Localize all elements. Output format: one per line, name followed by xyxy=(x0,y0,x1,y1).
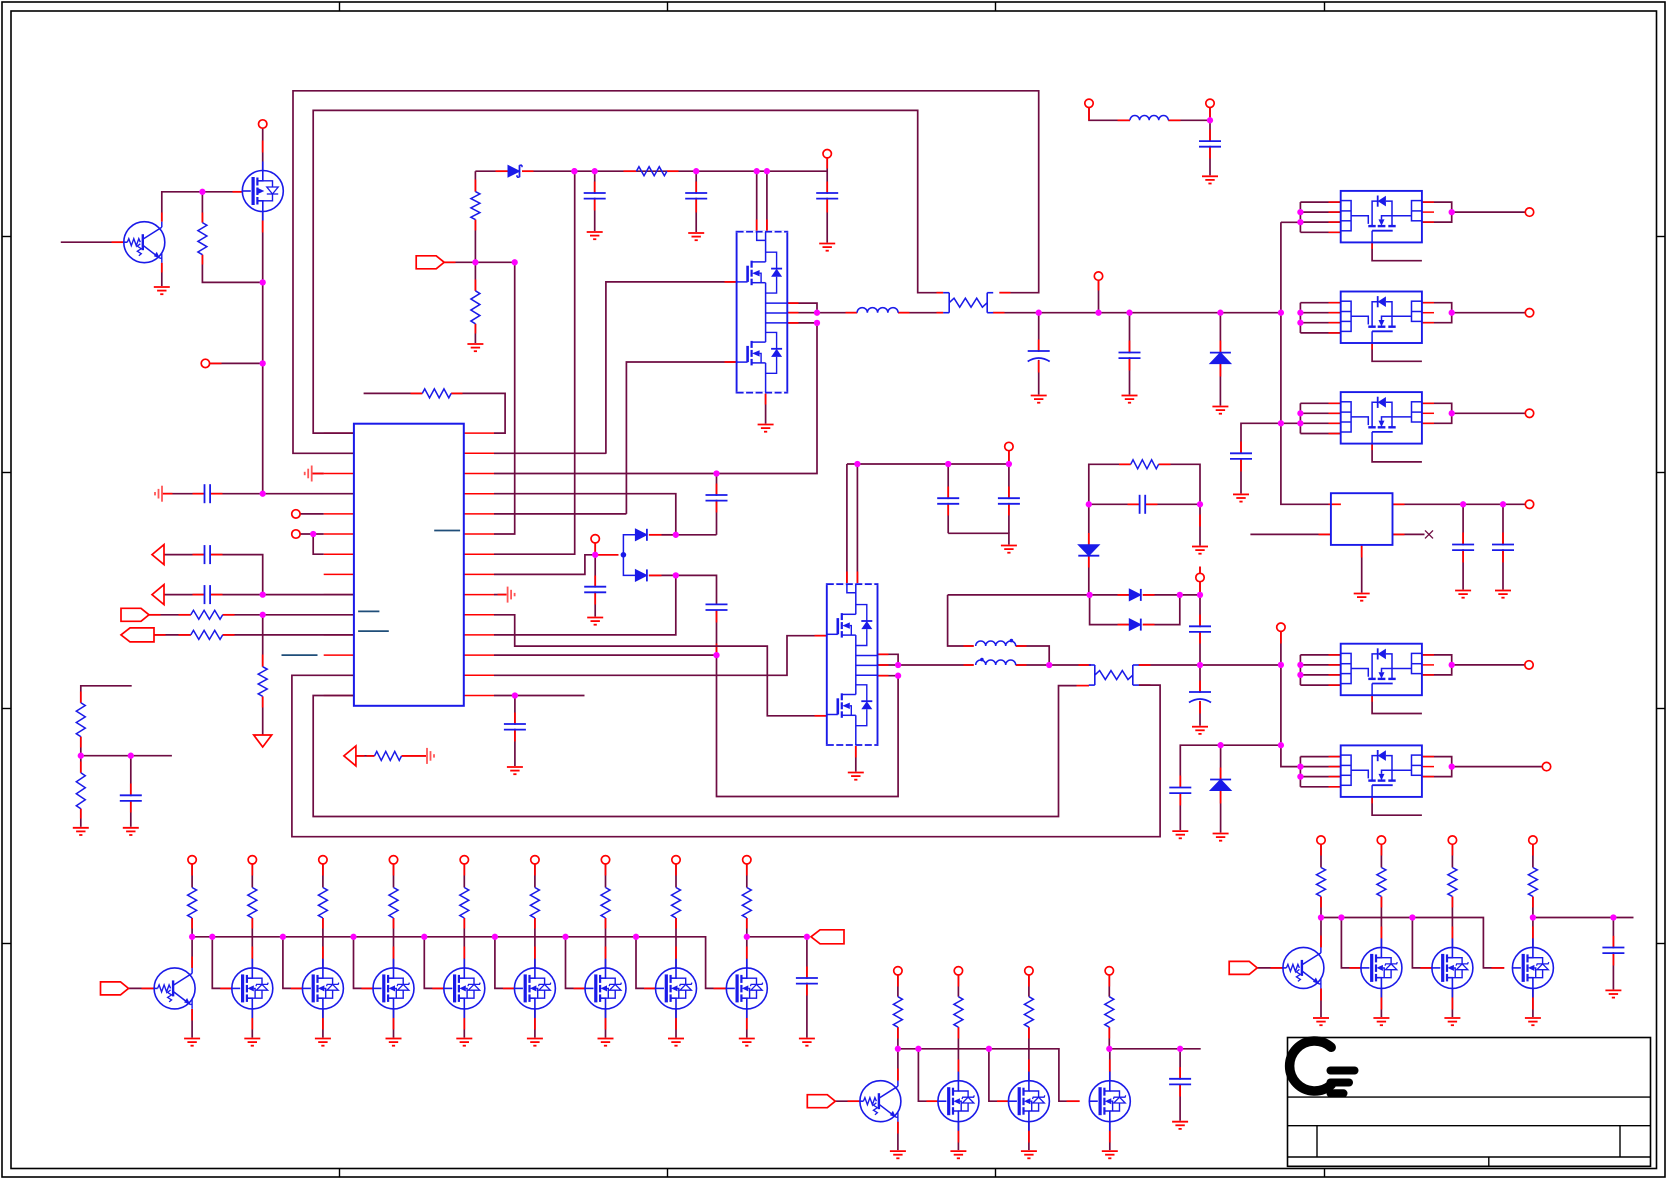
mosfet M6 row1 xyxy=(585,959,626,1018)
ground C26 xyxy=(1605,990,1621,997)
pin terminal grp2 2 xyxy=(954,967,962,975)
junction D6 out b xyxy=(1197,592,1203,598)
resistor R11 top xyxy=(422,389,451,398)
wire switch node to L1 xyxy=(817,312,857,314)
wire row1 drain resistor 4 leads xyxy=(463,864,465,888)
border bottom tick 4 xyxy=(1324,1169,1326,1178)
resistor R43 xyxy=(1448,868,1457,897)
sense resistor RS1 xyxy=(943,293,993,313)
capacitor C25 xyxy=(1169,1079,1192,1085)
wire grp2 drain 2 xyxy=(1028,1049,1030,1081)
wire U9 gnd xyxy=(1361,545,1363,593)
transistor Q2 xyxy=(154,968,195,1009)
pin terminal grp2 1 xyxy=(894,967,902,975)
border right tick 1 xyxy=(1657,236,1666,238)
junction U6 out xyxy=(1449,410,1455,416)
junction row1 gate tap 7 xyxy=(633,934,639,940)
resistor R6h xyxy=(191,630,223,639)
capacitor C22 xyxy=(1492,545,1515,551)
resistor R10 xyxy=(375,751,402,760)
pin terminal grp2 3 xyxy=(1025,967,1033,975)
ic U1 left dash xyxy=(282,654,318,656)
mosfet M11 grp2 xyxy=(1008,1072,1049,1131)
wire row1 gate 7 xyxy=(636,937,656,989)
junction row1 collector node xyxy=(189,934,195,940)
mosfet M7 row1 xyxy=(656,959,697,1018)
wire L13 to bus2 xyxy=(292,675,1160,836)
chassis ground IC L3 xyxy=(305,466,312,482)
capacitor C5 xyxy=(1118,353,1141,359)
transistor Q4 xyxy=(1283,947,1324,988)
wire R14row stub xyxy=(494,695,585,697)
junction switch node a xyxy=(814,310,820,316)
wire U2 right pin2 to bus xyxy=(787,312,817,314)
junction D5 anode node xyxy=(1086,592,1092,598)
junction Q1 gate node xyxy=(199,189,205,195)
wire Q3 emitter xyxy=(897,1122,899,1150)
wire row1 drain 1 xyxy=(251,918,253,968)
power mosfet module U5 xyxy=(1341,292,1422,344)
wire D2 leads xyxy=(1219,313,1221,406)
wire grp2 source 2 xyxy=(1028,1122,1030,1150)
junction U9 out C21 xyxy=(1460,501,1466,507)
resistor R31 xyxy=(893,997,902,1027)
ground C1 xyxy=(587,232,603,239)
border bottom tick 1 xyxy=(339,1169,341,1178)
polarity dot T1 secondary xyxy=(980,658,984,662)
wire grp3 resistor 1 bottom xyxy=(1320,897,1322,918)
diode D1 schottky xyxy=(508,165,522,177)
wire RC right to ground xyxy=(1199,504,1201,545)
pin terminal P4 bus xyxy=(1094,272,1102,280)
pin terminal grp3 1 xyxy=(1317,836,1325,844)
wire U6 right pins xyxy=(1422,403,1525,423)
wire module1 feed a down xyxy=(756,171,758,232)
junction C13 tap xyxy=(512,692,518,698)
junction grp2 collector node xyxy=(895,1046,901,1052)
wire grp2 source 3 xyxy=(1109,1122,1111,1150)
ground C23 xyxy=(1202,176,1218,183)
wire T1 secondary east xyxy=(1016,664,1091,666)
wire C1 leads xyxy=(594,171,596,231)
wire D6 anode stub xyxy=(1090,594,1130,596)
wire U6 left pins xyxy=(1300,403,1340,433)
pin terminal row1 8 xyxy=(743,856,751,864)
wire R20 to bus xyxy=(191,918,193,937)
capacitor C26 xyxy=(1602,948,1625,954)
wire C7 to corner xyxy=(210,555,263,595)
port P6 xyxy=(121,628,154,642)
dual mosfet module U2 xyxy=(737,232,788,393)
junction bus C4 tap xyxy=(1036,310,1042,316)
junction grp2 gate tap 2 xyxy=(986,1046,992,1052)
wire grp3 drain4 node xyxy=(1533,917,1634,919)
junction top chain node A xyxy=(571,168,577,174)
resistor R20 xyxy=(188,888,197,919)
junction M0 drain node xyxy=(260,279,266,285)
wire C17 leads xyxy=(1199,595,1201,665)
pin terminal row1 4 xyxy=(460,856,468,864)
wire P15 to Q3 xyxy=(835,1100,860,1102)
diode D6 xyxy=(1129,589,1141,601)
wire U5 left pins xyxy=(1300,303,1340,333)
wire M0 drain down xyxy=(262,212,264,494)
inductor T1 secondary xyxy=(976,660,1016,665)
wire U4 right pins xyxy=(1422,202,1525,222)
capacitor C21 xyxy=(1452,545,1475,551)
port P16 xyxy=(1229,961,1257,974)
border right tick 2 xyxy=(1657,472,1666,474)
junction L9 node xyxy=(260,591,266,597)
pin terminal P10 xyxy=(1277,623,1285,631)
wire P3 down / C3 leads xyxy=(826,158,828,243)
wire R9row stub xyxy=(494,594,507,596)
wire C5 leads xyxy=(1129,313,1131,395)
wire grp3 drain 2 xyxy=(1451,918,1453,948)
resistor R24 xyxy=(460,888,469,919)
wire R1 top xyxy=(201,192,203,223)
wire R2row to U2 gate1 column xyxy=(494,452,606,454)
wire grp3 resistor 4 leads xyxy=(1532,844,1534,867)
wire D7 branch xyxy=(1090,595,1130,625)
resistor R8 xyxy=(76,703,85,737)
mosfet M10 grp2 xyxy=(938,1072,979,1131)
wire row1 drain resistor 7 leads xyxy=(675,864,677,888)
wire grp3 drain 1 xyxy=(1380,918,1382,948)
junction U4 left r3 xyxy=(1297,219,1303,225)
wire M0 source to pin xyxy=(262,128,264,170)
ground M4 row1 xyxy=(456,1039,472,1046)
capacitor C11 xyxy=(584,587,607,593)
capacitor C2 xyxy=(685,193,708,199)
wire grp2 resistor 2 leads xyxy=(957,975,959,997)
wire L4 row xyxy=(263,493,354,495)
wire grp3 gate 2 xyxy=(1412,918,1432,968)
wire U3 feed a down xyxy=(846,464,848,584)
pin terminal grp3 4 xyxy=(1529,836,1537,844)
wire grp3 resistor 1 leads xyxy=(1320,844,1322,867)
ground M5 row1 xyxy=(527,1039,543,1046)
wire row1 drain 2 xyxy=(322,918,324,968)
wire P9 to D6 node xyxy=(1199,582,1201,595)
wire module5 feed line xyxy=(1180,745,1281,787)
ground C11 xyxy=(587,618,603,625)
wire R6 to IC L11 xyxy=(223,634,354,636)
ground R4 xyxy=(467,344,483,351)
pin terminal U9 out xyxy=(1525,500,1533,508)
wire row1 drain resistor 6 leads xyxy=(605,864,607,888)
capacitor C12 xyxy=(705,604,728,610)
junction U4 out xyxy=(1449,209,1455,215)
ground R9 xyxy=(73,828,89,835)
wire grp2 resistor 4 leads xyxy=(1108,975,1110,997)
power mosfet module U6 xyxy=(1341,392,1422,444)
wire sense1 BR east xyxy=(993,312,1281,314)
mosfet M22 grp3 xyxy=(1512,938,1553,997)
wire P4 to bus xyxy=(1098,280,1100,312)
wire row1 bias pin xyxy=(191,864,193,888)
capacitor C14 xyxy=(937,498,960,504)
pin terminal U7 out xyxy=(1525,661,1533,669)
voltage regulator U9 xyxy=(1331,493,1393,545)
border left tick 4 xyxy=(2,943,11,945)
pin terminal IC L6 xyxy=(292,530,300,538)
resistor R26 xyxy=(601,888,610,919)
wire D3 cathode stub xyxy=(649,534,676,536)
wire T1 to C7 xyxy=(164,554,205,556)
ground M8 row1 xyxy=(739,1039,755,1046)
resistor R27 xyxy=(672,888,681,919)
inductor L2 xyxy=(1130,116,1168,121)
diode D3 xyxy=(635,529,647,541)
resistor R2 top chain xyxy=(636,167,667,176)
junction boot node a xyxy=(814,320,820,326)
junction row1 gate tap 5 xyxy=(492,934,498,940)
wire C8 to IC L9 xyxy=(210,594,354,596)
capacitor C3 xyxy=(816,193,839,199)
wire T1 primary to node xyxy=(1016,646,1049,665)
wire R8row to diode node xyxy=(494,555,595,575)
wire Q3 collector xyxy=(897,1049,899,1081)
pin terminal P2 xyxy=(201,359,209,367)
wire U2 right pin1 xyxy=(787,303,817,313)
wire U3 right pin1 xyxy=(878,654,899,665)
wire U4 left pins xyxy=(1300,202,1340,232)
border top tick 4 xyxy=(1324,2,1326,11)
junction row1 gate tap 6 xyxy=(562,934,568,940)
port P14 xyxy=(811,930,844,944)
wire grp2 gate 1 xyxy=(918,1049,938,1101)
wire L6-L7 link xyxy=(313,534,324,554)
port P15 xyxy=(807,1095,835,1108)
junction U5 left r2 xyxy=(1297,310,1303,316)
wire C10 bottom to D3 xyxy=(662,534,717,536)
junction U8 left r2 xyxy=(1297,763,1303,769)
wire C11 leads xyxy=(594,555,596,617)
mosfet M21 grp3 xyxy=(1432,938,1473,997)
junction grp2 drain4 xyxy=(1106,1046,1112,1052)
pin terminal row1 2 xyxy=(319,856,327,864)
pin terminal P12 xyxy=(1206,99,1214,107)
inductor L1 xyxy=(857,308,898,313)
mosfet M1 row1 xyxy=(232,959,273,1018)
capacitor C18 polarized xyxy=(1189,692,1212,703)
resistor R44 xyxy=(1528,868,1537,897)
wire P6 to R6 xyxy=(154,634,191,636)
pin terminal grp3 2 xyxy=(1377,836,1385,844)
resistor R34 xyxy=(1105,997,1114,1027)
ground C21 xyxy=(1455,591,1471,598)
junction divider mid xyxy=(78,753,84,759)
junction grp3 collector node xyxy=(1318,914,1324,920)
junction grp2 gate tap 1 xyxy=(915,1046,921,1052)
capacitor C19 xyxy=(1169,788,1192,794)
wire D4 node east xyxy=(676,575,717,604)
mosfet M8 row1 xyxy=(726,959,767,1018)
wire C23 leads xyxy=(1209,120,1211,175)
border bottom tick 3 xyxy=(995,1169,997,1178)
ground M10 grp2 xyxy=(950,1151,966,1158)
wire D5 leads xyxy=(1088,504,1090,595)
junction row1 gate tap 4 xyxy=(421,934,427,940)
ic U1 internal label dash 2 xyxy=(358,610,379,612)
wire P11 to L2 xyxy=(1089,108,1130,121)
ground C5 xyxy=(1122,396,1138,403)
border right tick 4 xyxy=(1657,943,1666,945)
wire grp2 resistor 2 bottom xyxy=(957,1027,959,1049)
capacitor C1 xyxy=(583,193,606,199)
wire grp2 resistor 3 leads xyxy=(1028,975,1030,997)
wire U7 right pins xyxy=(1422,655,1525,675)
wire U9 nc stub xyxy=(1393,533,1425,535)
wire grp3 resistor 3 bottom xyxy=(1451,897,1453,918)
junction row1 gate tap 3 xyxy=(350,934,356,940)
wire row1 drain resistor 8 leads xyxy=(746,864,748,888)
wire D8 leads xyxy=(1220,745,1222,832)
capacitor C4 polarized xyxy=(1027,351,1050,362)
wire row1 source 4 xyxy=(463,1009,465,1038)
ground C25 xyxy=(1172,1122,1188,1129)
pin terminal P9 xyxy=(1196,573,1204,581)
ground M2 row1 xyxy=(315,1039,331,1046)
wire C24 leads xyxy=(806,937,808,1038)
wire right bus segment A xyxy=(1281,222,1341,504)
ground C13 xyxy=(507,767,523,774)
ground RC xyxy=(1192,547,1208,554)
wire U2 gate1 from column xyxy=(606,282,737,454)
wire grp2 drain 3 xyxy=(1109,1049,1111,1081)
wire Q4 collector xyxy=(1320,918,1322,948)
resistor R21 xyxy=(248,888,257,919)
wire RC loop right xyxy=(1159,464,1200,504)
wire sense2 BR stub xyxy=(1139,684,1151,686)
wire U3 right pin3 xyxy=(878,675,899,677)
power mosfet module U4 xyxy=(1341,191,1422,243)
wire grp3 gate 1 xyxy=(1341,918,1361,968)
capacitor C7 xyxy=(205,545,211,565)
wire blue link down xyxy=(623,555,635,576)
wire row1 gate 1 xyxy=(212,937,232,989)
ground C22 xyxy=(1495,591,1511,598)
wire C14 leads xyxy=(947,464,949,533)
wire P8 stub xyxy=(1008,451,1010,464)
wire top loop west xyxy=(948,594,1090,596)
wire U8 gate lead xyxy=(1372,797,1422,815)
border top tick 3 xyxy=(995,2,997,11)
ic U1 pin stubs xyxy=(324,433,494,695)
wire row1 drain 6 xyxy=(605,918,607,968)
junction grp3 cap tap xyxy=(1610,914,1616,920)
wire RC cap east xyxy=(1145,503,1200,505)
resistor R33 xyxy=(1024,997,1033,1027)
ground Q3 xyxy=(890,1151,906,1158)
ground M11 grp2 xyxy=(1021,1151,1037,1158)
wire RC loop xyxy=(1089,464,1131,504)
mosfet M12 grp2 xyxy=(1089,1072,1130,1131)
wire row1 drain 5 xyxy=(534,918,536,968)
wire P16 to Q4 xyxy=(1257,967,1283,969)
wire U8 right pins xyxy=(1422,757,1542,777)
wire Q1 emitter xyxy=(161,263,163,286)
wire Q1 collector to node xyxy=(162,192,203,222)
junction D8 tap xyxy=(1217,742,1223,748)
pin terminal row1 6 xyxy=(601,856,609,864)
resistor R22 xyxy=(318,888,327,919)
resistor R12rc xyxy=(1131,460,1159,469)
chassis ground C6 xyxy=(155,486,162,502)
wire R7row to top column xyxy=(494,172,575,554)
wire R9 to ground xyxy=(80,809,82,827)
wire row1 source 7 xyxy=(675,1009,677,1038)
wire right bus segment B xyxy=(1281,631,1301,766)
dual mosfet module U3 xyxy=(827,584,878,745)
port P5 xyxy=(121,608,149,621)
junction U4 left r2 xyxy=(1297,209,1303,215)
chassis ground T4 row xyxy=(427,748,434,764)
junction D3 cathode xyxy=(673,532,679,538)
wire D6 cathode xyxy=(1143,594,1200,596)
ic U1 internal label dash 3 xyxy=(358,630,389,632)
wire C20 bottom xyxy=(1240,459,1242,494)
wire row1 drain 4 xyxy=(463,918,465,968)
junction grp3 gate tap 2 xyxy=(1409,914,1415,920)
wire R4 to ground xyxy=(474,324,476,343)
resistor R25 xyxy=(530,888,539,919)
capacitor C10 xyxy=(705,495,728,501)
junction C14 tap xyxy=(945,461,951,467)
wire net outer loop (IC L2 to sense R TR) xyxy=(293,91,1039,454)
wire C25 leads xyxy=(1179,1049,1181,1121)
junction L10 node xyxy=(260,612,266,618)
pin terminal P8 xyxy=(1005,442,1013,450)
junction bus C5 tap xyxy=(1126,310,1132,316)
resistor R23 xyxy=(389,888,398,919)
ground C24 xyxy=(799,1039,815,1046)
resistor R28 xyxy=(742,888,751,919)
wire L2 to P12 xyxy=(1168,108,1210,121)
diode D7 xyxy=(1129,619,1141,631)
junction bus P4 tap xyxy=(1095,310,1101,316)
wire C2 leads xyxy=(695,171,697,232)
wire C13 leads xyxy=(514,696,516,767)
wire grp2 drain 1 xyxy=(957,1049,959,1081)
power mosfet module U8 xyxy=(1341,745,1422,797)
wire Q2 emitter xyxy=(191,1009,193,1038)
ground M1 row1 xyxy=(244,1039,260,1046)
resistor R32 xyxy=(954,997,963,1027)
wire P13 to Q2 xyxy=(129,987,155,989)
ground D8 xyxy=(1213,834,1229,841)
port triangle T1 xyxy=(152,545,164,565)
wire T4 to R10 xyxy=(356,755,375,757)
pin terminal row1 7 xyxy=(672,856,680,864)
border bottom tick 2 xyxy=(667,1169,669,1178)
junction row1 drain8 xyxy=(744,934,750,940)
wire Q4 emitter xyxy=(1320,988,1322,1017)
border left tick 2 xyxy=(2,472,11,474)
wire C14-C15 join xyxy=(948,533,1009,544)
junction D4 cathode xyxy=(673,572,679,578)
company logo xyxy=(1290,1041,1332,1091)
wire grp2 resistor 1 leads xyxy=(897,975,899,997)
wire C6 west xyxy=(163,493,205,495)
junction U7 out xyxy=(1449,662,1455,668)
resistor R5 xyxy=(191,610,223,619)
pin terminal row1 1 xyxy=(248,856,256,864)
wire C15 leads xyxy=(1008,464,1010,533)
ground C3 xyxy=(819,244,835,251)
ground U2 xyxy=(758,425,774,432)
